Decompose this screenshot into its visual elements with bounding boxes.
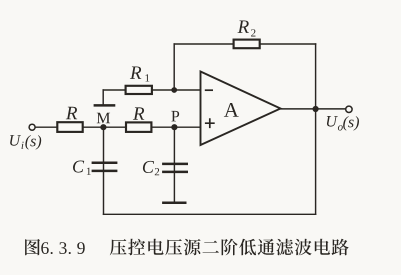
capacitor C1 [92,163,118,171]
caption char 路 [332,239,349,256]
capacitor C2 [162,164,188,172]
label C1 subscript 1 [87,168,91,175]
caption char 二 [203,241,219,253]
wire: bottom feedback rail [104,213,316,215]
label Uo subscript o [338,125,343,130]
resistor R (between M and P) [126,122,151,131]
resistor R2 [234,40,260,49]
input terminal circle [29,124,35,130]
caption char 图 [25,239,40,255]
label Uo (s) [343,116,359,131]
label Ui [10,135,21,146]
output terminal circle [346,106,352,112]
caption char 阶 [222,239,238,256]
caption char 通 [258,239,275,255]
label C2 [143,161,154,173]
label node M [97,113,110,123]
wire: drop from inverting rail to ground bar [102,90,104,104]
op-amp U1 triangle [201,72,281,146]
caption char 波 [295,239,312,256]
label C1 [73,160,84,172]
wire: right vertical joining top rail, output node and bottom rail [315,44,317,214]
ground bar (R1 to common) [94,104,116,107]
label R input [66,107,77,119]
caption char 压 [165,239,182,255]
wire: main input rail Ui -> R -> M -> R -> P -> op-amp [36,126,201,128]
label op-amp gain A [224,103,239,117]
caption char 电 [148,239,163,255]
resistor R (input) [57,122,82,132]
op-amp non-inverting (+) pin mark [205,118,215,128]
label node P [171,111,179,121]
caption char 控 [128,239,145,256]
node M junction dot [100,124,106,130]
resistor R1 [126,86,152,94]
caption char 压 [110,239,127,255]
wire: top feedback rail (R2 branch) [174,43,315,45]
label Ui (s) [25,135,41,150]
wire: inverting-input rail through R1 [103,89,200,91]
label R1 subscript 1 [145,74,149,81]
wire: C1 branch vertical from node M to bottom rail [103,127,105,214]
ground bar below C2 [162,202,186,205]
wire: vertical from top rail down to inverting-input node [173,44,175,90]
label C2 subscript 2 [155,168,159,175]
caption char 滤 [276,239,293,256]
inverting node junction dot [171,87,177,93]
caption char 电 [315,239,330,255]
wire: op-amp output to terminal [281,108,346,110]
label Ui subscript i [22,142,24,149]
label R2 [238,20,249,32]
output node junction dot [313,106,319,112]
op-amp inverting (-) pin mark [205,89,213,91]
caption char 低 [239,239,256,256]
node P junction dot [171,124,177,130]
caption figure number 6.3.9 [41,242,84,254]
label R2 subscript 2 [251,29,255,36]
label Uo [327,116,338,127]
label R1 [130,66,141,78]
label R middle [133,107,144,119]
wire: C2 branch vertical from node P [173,127,175,201]
caption char 源 [184,239,201,255]
